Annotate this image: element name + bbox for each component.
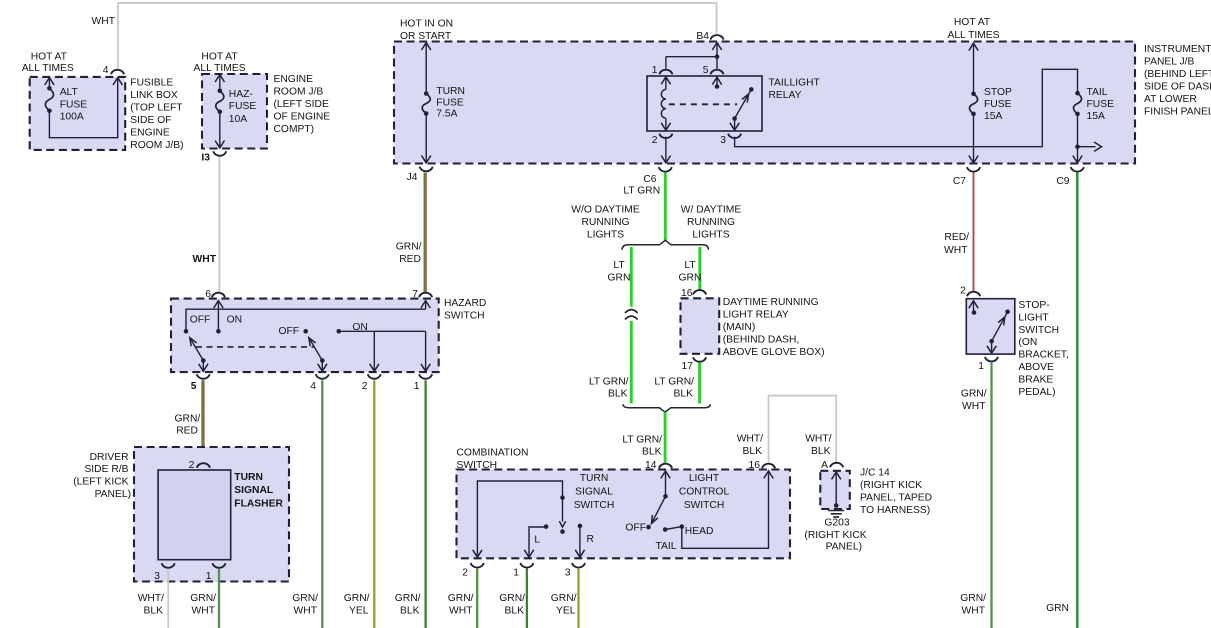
svg-text:BRACKET,: BRACKET, [1018, 350, 1068, 361]
svg-text:YEL: YEL [556, 606, 576, 617]
svg-text:14: 14 [645, 460, 657, 471]
wire label RED/WHT [944, 232, 969, 256]
wire GRN/WHT (hazard 4) [321, 380, 323, 628]
svg-text:2: 2 [960, 285, 966, 296]
svg-text:LT GRN/: LT GRN/ [589, 377, 629, 388]
wire LT GRN (w/o DRL branch, lower) [630, 321, 633, 404]
svg-text:1: 1 [652, 65, 658, 76]
svg-text:C9: C9 [1056, 176, 1069, 187]
wire RED/WHT (C7 to stop light switch) [973, 173, 975, 292]
wire GRN/RED (hazard 5 to flasher) [201, 380, 203, 462]
wire (inside fusible link box) [49, 78, 122, 138]
label OFF (hazard pole 2) [279, 326, 300, 337]
svg-text:HEAD: HEAD [685, 526, 714, 537]
engine room J/B box [202, 74, 267, 149]
svg-text:1: 1 [978, 361, 984, 372]
svg-text:WHT: WHT [193, 254, 217, 265]
svg-text:WHT: WHT [449, 606, 473, 617]
label HAZARD SWITCH [444, 298, 486, 321]
svg-text:ENGINE: ENGINE [130, 128, 170, 139]
svg-text:W/O DAYTIME: W/O DAYTIME [571, 205, 640, 216]
wire LT GRN/BLK (merge to combination switch) [664, 412, 667, 463]
connector A (J/C 14) [821, 460, 843, 471]
label OFF (light control) [625, 523, 646, 534]
svg-text:FLASHER: FLASHER [234, 498, 283, 509]
svg-text:ALT: ALT [60, 87, 79, 98]
svg-text:LINK BOX: LINK BOX [130, 90, 178, 101]
label ENGINE ROOM J/B location [274, 74, 331, 135]
svg-text:GRN/: GRN/ [499, 593, 525, 604]
svg-text:I3: I3 [201, 153, 210, 164]
svg-text:FUSE: FUSE [436, 97, 464, 108]
svg-text:LT GRN: LT GRN [623, 186, 660, 197]
svg-text:15A: 15A [984, 111, 1002, 122]
wire label LT GRN (C6) [623, 186, 660, 197]
svg-text:ENGINE: ENGINE [274, 74, 314, 85]
svg-text:LIGHTS: LIGHTS [692, 230, 729, 241]
wire label WHT (bold) [193, 254, 217, 265]
svg-text:(BEHIND DASH,: (BEHIND DASH, [723, 335, 800, 346]
svg-text:3: 3 [720, 135, 726, 146]
svg-text:6: 6 [205, 289, 211, 300]
stop light switch lever [987, 310, 1010, 354]
label DRIVER SIDE R/B location [73, 452, 131, 500]
hazard pole2 lever [309, 338, 327, 372]
svg-text:(RIGHT KICK: (RIGHT KICK [804, 530, 866, 541]
hazard pole2 ON contact rail [337, 329, 431, 371]
wire WHT (battery feed, top) [118, 3, 717, 68]
svg-text:15A: 15A [1087, 111, 1105, 122]
hazard conn7 riser [421, 301, 430, 310]
connector J4 [407, 167, 433, 183]
svg-text:TO HARNESS): TO HARNESS) [860, 505, 930, 516]
svg-text:(RIGHT KICK: (RIGHT KICK [860, 480, 922, 491]
junction connector J/C 14 box [820, 471, 850, 509]
svg-text:ROOM J/B: ROOM J/B [274, 87, 324, 98]
hazard pole1 OFF contact [184, 309, 426, 333]
svg-text:J4: J4 [407, 172, 418, 183]
svg-text:LIGHT RELAY: LIGHT RELAY [723, 310, 789, 321]
svg-text:FUSE: FUSE [1087, 99, 1115, 110]
svg-text:OFF: OFF [625, 523, 646, 534]
svg-text:2: 2 [652, 135, 658, 146]
svg-text:5: 5 [191, 381, 197, 392]
label HEAD [685, 526, 714, 537]
svg-text:GRN: GRN [608, 273, 631, 284]
wire label LT GRN/BLK (right) [654, 377, 694, 400]
label J/C 14 location [860, 468, 932, 517]
svg-text:GRN/: GRN/ [190, 593, 216, 604]
label INSTRUMENT PANEL J/B location [1144, 44, 1211, 118]
svg-text:RED/: RED/ [944, 232, 969, 243]
option split bracket [622, 240, 708, 250]
svg-text:SIDE R/B: SIDE R/B [84, 464, 128, 475]
wire WHT/BLK (flasher 3) [167, 569, 169, 628]
connector pin 5 (taillight relay) [703, 65, 724, 76]
svg-text:OR START: OR START [400, 31, 452, 42]
svg-text:BLK: BLK [400, 606, 420, 617]
svg-text:(LEFT SIDE: (LEFT SIDE [274, 99, 329, 110]
svg-text:OFF: OFF [190, 315, 211, 326]
label STOP-LIGHT SWITCH location [1018, 300, 1068, 398]
svg-text:BLK: BLK [642, 447, 662, 458]
svg-text:RELAY: RELAY [769, 90, 802, 101]
svg-text:(BEHIND LEFT: (BEHIND LEFT [1144, 69, 1211, 80]
fuse TAIL FUSE 15A [1073, 87, 1114, 163]
wire label GRN/RED (upper) [396, 242, 422, 266]
svg-text:ROOM J/B): ROOM J/B) [130, 140, 183, 151]
connector pin 4 (fusible link box) [103, 65, 124, 76]
svg-text:TAIL: TAIL [1087, 87, 1108, 98]
inline connector (left branch) [625, 310, 638, 320]
label ON (hazard pole 2) [352, 322, 367, 333]
label DAYTIME RUNNING LIGHT RELAY location [723, 297, 825, 358]
wire label GRN/WHT (stop sw bottom) [960, 593, 986, 617]
svg-text:TAIL: TAIL [656, 541, 677, 552]
svg-text:RUNNING: RUNNING [581, 217, 629, 228]
svg-text:INSTRUMENT: INSTRUMENT [1144, 44, 1211, 55]
svg-text:BLK: BLK [811, 446, 831, 457]
label W/ DAYTIME RUNNING LIGHTS [681, 205, 742, 241]
svg-text:(ON: (ON [1018, 337, 1037, 348]
connector pin 2 (combination switch) [462, 563, 483, 579]
connector pin 3 (flasher) [154, 563, 174, 582]
turn signal lever [559, 498, 565, 534]
wire label GRN/WHT (stop light sw) [961, 389, 987, 413]
svg-text:WHT: WHT [962, 606, 986, 617]
label TAIL [656, 541, 677, 552]
label HOT IN ON OR START [400, 18, 453, 42]
svg-text:SWITCH: SWITCH [444, 310, 485, 321]
svg-text:BRAKE: BRAKE [1018, 374, 1053, 385]
svg-text:WHT: WHT [92, 16, 116, 27]
svg-text:FUSE: FUSE [984, 99, 1012, 110]
connector pin 1 (taillight relay) [652, 65, 673, 76]
label LIGHT CONTROL SWITCH [679, 473, 730, 511]
svg-text:FUSE: FUSE [60, 100, 88, 111]
svg-text:SIGNAL: SIGNAL [234, 485, 273, 496]
svg-text:DAYTIME RUNNING: DAYTIME RUNNING [723, 297, 819, 308]
connector pin 1 (combination switch) [513, 563, 533, 579]
connector pin 7 (hazard switch) [412, 289, 432, 300]
svg-text:1: 1 [513, 568, 519, 579]
wire LT GRN (DRL relay to merge) [698, 363, 701, 404]
connector pin 2 (taillight relay) [652, 134, 673, 146]
svg-text:HOT AT: HOT AT [201, 52, 238, 63]
svg-text:LT GRN/: LT GRN/ [622, 435, 662, 446]
wire GRN/YEL (hazard 2) [373, 380, 375, 628]
wire label LT GRN/BLK (center) [622, 435, 662, 458]
svg-text:1: 1 [414, 381, 420, 392]
wire label GRN/BLK (hazard 1 bottom) [395, 593, 421, 617]
wire GRN/WHT (comb 2) [476, 568, 478, 628]
connector pin 4 (hazard switch) [310, 374, 329, 392]
wire WHT/BLK (comb 16 to J/C 14) [769, 396, 837, 463]
svg-text:TURN: TURN [234, 472, 263, 483]
svg-text:WHT/: WHT/ [138, 593, 164, 604]
wire GRN/WHT (flasher 1) [218, 569, 220, 628]
svg-text:WHT: WHT [192, 606, 216, 617]
connector pin 2 (flasher) [189, 460, 210, 471]
svg-text:LIGHT: LIGHT [1018, 312, 1049, 323]
wire label GRN (bottom) [1046, 603, 1069, 614]
wire WHT (I3 to hazard switch) [218, 157, 220, 292]
label FUSIBLE LINK BOX location [130, 78, 183, 152]
svg-text:GRN/: GRN/ [961, 389, 987, 400]
svg-text:GRN/: GRN/ [395, 593, 421, 604]
driver side R/B box [134, 447, 289, 582]
wire GRN/YEL (comb 3) [577, 568, 579, 628]
svg-text:SIDE OF: SIDE OF [130, 115, 171, 126]
svg-text:(MAIN): (MAIN) [723, 322, 756, 333]
svg-text:4: 4 [103, 65, 109, 76]
svg-text:(TOP LEFT: (TOP LEFT [130, 103, 183, 114]
wire pin2 to C6 [661, 137, 670, 163]
connector pin 16 (combination switch) [749, 460, 775, 471]
wire GRN (C9 down) [1076, 173, 1079, 628]
svg-text:HAZ-: HAZ- [229, 89, 253, 100]
wire label LT GRN (right branch) [679, 260, 702, 284]
turn signal flasher box [158, 470, 231, 560]
svg-text:SWITCH: SWITCH [1018, 325, 1059, 336]
svg-text:4: 4 [310, 381, 316, 392]
svg-text:BLK: BLK [144, 606, 164, 617]
svg-text:PANEL): PANEL) [826, 542, 862, 553]
svg-text:17: 17 [682, 361, 694, 372]
connector C9 [1056, 167, 1083, 187]
svg-text:GRN/: GRN/ [551, 593, 577, 604]
relay mechanical link (dashed) [669, 103, 737, 105]
fuse HAZ-FUSE 10A [215, 75, 256, 148]
taillight relay box [647, 76, 762, 131]
wire GRN/RED (J4 to hazard switch) [424, 173, 426, 292]
wire label GRN/YEL (comb 3 bottom) [551, 593, 577, 617]
svg-text:BLK: BLK [743, 446, 763, 457]
connector pin 3 (taillight relay) [720, 134, 741, 146]
svg-text:PANEL): PANEL) [95, 489, 131, 500]
svg-text:BLK: BLK [608, 389, 628, 400]
connector C7 [953, 167, 980, 187]
label OFF (hazard pole 1) [190, 315, 211, 326]
svg-text:R: R [586, 534, 593, 545]
svg-text:PEDAL): PEDAL) [1018, 387, 1055, 398]
connector I3 [201, 151, 226, 163]
connector B4 [696, 31, 723, 42]
light control OFF contact [646, 525, 651, 530]
connector pin 2 (stop light switch) [960, 285, 980, 296]
svg-text:SWITCH: SWITCH [574, 500, 615, 511]
label W/O DAYTIME RUNNING LIGHTS [571, 205, 640, 241]
svg-text:G203: G203 [824, 518, 849, 529]
svg-text:7.5A: 7.5A [436, 109, 457, 120]
svg-text:TURN: TURN [580, 473, 609, 484]
svg-text:ALL TIMES: ALL TIMES [194, 63, 246, 74]
wire label LT GRN/BLK (left) [589, 377, 629, 400]
svg-text:DRIVER: DRIVER [90, 452, 129, 463]
svg-text:3: 3 [565, 568, 571, 579]
wire label GRN/YEL (hazard 2 bottom) [344, 593, 370, 617]
connector pin 3 (combination switch) [565, 563, 585, 579]
hazard pole1 lever [190, 338, 208, 372]
svg-text:LIGHT: LIGHT [689, 473, 720, 484]
svg-text:HAZARD: HAZARD [444, 298, 486, 309]
J/C 14 internal wire [832, 472, 841, 508]
wire GRN/BLK (hazard 1) [424, 380, 426, 628]
svg-text:TAILLIGHT: TAILLIGHT [769, 77, 821, 88]
svg-text:J/C 14: J/C 14 [860, 468, 890, 479]
wire label WHT/BLK (bottom) [138, 593, 164, 617]
wire label LT GRN (left branch) [608, 260, 631, 284]
ground G203 [828, 511, 844, 518]
svg-text:ABOVE GLOVE BOX): ABOVE GLOVE BOX) [723, 347, 825, 358]
wire GRN/WHT (stop light switch 1) [990, 362, 992, 628]
svg-text:LT: LT [684, 260, 696, 271]
svg-text:LT: LT [613, 260, 625, 271]
svg-text:ALL TIMES: ALL TIMES [947, 30, 999, 41]
wire label GRN/BLK (comb 1 bottom) [499, 593, 525, 617]
connector pin 1 (stop light switch) [978, 357, 998, 372]
svg-text:(LEFT KICK: (LEFT KICK [73, 477, 128, 488]
label TURN SIGNAL SWITCH [574, 473, 615, 511]
svg-text:FUSIBLE: FUSIBLE [130, 78, 173, 89]
fusible link ALT FUSE 100A [45, 78, 88, 123]
svg-text:3: 3 [154, 571, 160, 582]
hazard pole2 OFF contact [303, 329, 308, 334]
hazard switch pole 1 common [214, 301, 223, 334]
stop light switch box [966, 299, 1015, 354]
svg-text:PANEL J/B: PANEL J/B [1144, 57, 1194, 68]
wire LT GRN (w/ DRL branch to relay) [698, 247, 701, 291]
fuse STOP FUSE 15A [969, 43, 1012, 163]
svg-text:GRN/: GRN/ [344, 593, 370, 604]
label TAILLIGHT RELAY [769, 77, 821, 101]
wire label WHT (top left) [92, 16, 116, 27]
connector pin 14 (combination switch) [645, 460, 672, 471]
svg-text:GRN/: GRN/ [960, 593, 986, 604]
svg-text:STOP: STOP [984, 87, 1012, 98]
svg-text:SIGNAL: SIGNAL [575, 486, 613, 497]
svg-text:10A: 10A [229, 114, 247, 125]
svg-text:HOT AT: HOT AT [31, 52, 68, 63]
svg-text:WHT/: WHT/ [805, 434, 831, 445]
svg-text:RUNNING: RUNNING [687, 217, 735, 228]
svg-text:16: 16 [749, 460, 761, 471]
wire LT GRN (C6 to split) [664, 173, 667, 241]
svg-text:C6: C6 [643, 174, 656, 185]
svg-text:BLK: BLK [505, 606, 525, 617]
svg-text:CONTROL: CONTROL [679, 486, 730, 497]
svg-text:COMBINATION: COMBINATION [457, 448, 529, 459]
svg-text:W/ DAYTIME: W/ DAYTIME [681, 205, 742, 216]
svg-text:100A: 100A [60, 112, 84, 123]
label HOT AT ALL TIMES (engine room J/B) [194, 52, 246, 75]
svg-text:GRN/: GRN/ [292, 593, 318, 604]
wire GRN/BLK (comb 1) [526, 568, 528, 628]
relay coil (taillight relay) [661, 77, 722, 130]
connector pin 16 (DRL relay) [681, 288, 706, 299]
svg-text:7: 7 [412, 289, 418, 300]
svg-text:ALL TIMES: ALL TIMES [22, 63, 74, 74]
option merge bracket [623, 404, 710, 412]
svg-text:COMPT): COMPT) [274, 124, 315, 135]
fusible link box (engine room J/B) [30, 77, 126, 150]
svg-text:WHT/: WHT/ [737, 434, 763, 445]
svg-text:ABOVE: ABOVE [1018, 362, 1054, 373]
connector pin 2 (hazard switch) [362, 374, 381, 392]
wire label GRN/WHT (comb 2 bottom) [448, 593, 474, 617]
label G203 (RIGHT KICK PANEL) [804, 518, 866, 553]
wire label GRN/RED (lower) [175, 414, 201, 437]
svg-text:GRN/: GRN/ [448, 593, 474, 604]
svg-text:WHT: WHT [962, 401, 986, 412]
wire label GRN/WHT (hazard 4 bottom) [292, 593, 318, 617]
svg-text:LT GRN/: LT GRN/ [654, 377, 694, 388]
svg-text:LIGHTS: LIGHTS [587, 230, 624, 241]
node B4 junction [666, 43, 722, 69]
svg-text:TURN: TURN [436, 86, 465, 97]
svg-text:B4: B4 [696, 31, 709, 42]
stop light switch common [969, 301, 978, 315]
svg-text:WHT: WHT [944, 245, 968, 256]
svg-text:ON: ON [227, 315, 242, 326]
label ON (hazard pole 1) [227, 315, 242, 326]
svg-text:SIDE OF DASH: SIDE OF DASH [1144, 82, 1211, 93]
wire LT GRN (w/o DRL branch, upper) [630, 247, 633, 307]
connector pin 17 (DRL relay) [682, 357, 707, 372]
svg-text:FINISH PANEL): FINISH PANEL) [1144, 107, 1211, 118]
svg-text:PANEL, TAPED: PANEL, TAPED [860, 493, 932, 504]
daytime running light relay box [681, 298, 720, 354]
svg-text:AT LOWER: AT LOWER [1144, 94, 1197, 105]
svg-text:YEL: YEL [349, 606, 369, 617]
connector pin 5 (hazard switch) [191, 374, 210, 392]
hazard switch box [171, 299, 439, 373]
label L [534, 535, 540, 546]
connector pin 1 (hazard switch) [414, 374, 432, 392]
combination switch box [457, 470, 791, 559]
label HOT AT ALL TIMES (stop fuse) [947, 17, 999, 41]
svg-text:5: 5 [703, 65, 709, 76]
svg-text:SWITCH: SWITCH [684, 500, 725, 511]
hazard mechanical link (dashed) [196, 346, 314, 348]
svg-text:1: 1 [206, 571, 212, 582]
fuse TURN FUSE 7.5A [422, 43, 465, 163]
svg-text:WHT: WHT [294, 606, 318, 617]
label HOT AT ALL TIMES (fusible link box) [22, 52, 74, 75]
label COMBINATION SWITCH [457, 448, 529, 472]
light control TAIL-HEAD lever [663, 524, 684, 532]
wire pin3 to tail fuse [735, 69, 1078, 146]
wire label WHT/BLK (left) [737, 434, 763, 458]
svg-text:GRN/: GRN/ [175, 414, 201, 425]
connector pin 6 (hazard switch) [205, 289, 225, 300]
turn signal switch common rail [473, 481, 565, 557]
svg-text:HOT AT: HOT AT [954, 17, 991, 28]
svg-text:BLK: BLK [674, 389, 694, 400]
turn signal L contact [524, 524, 548, 557]
wire label GRN/WHT (flasher 1 bottom) [190, 593, 216, 617]
connector C6 [643, 167, 671, 185]
svg-text:2: 2 [462, 568, 468, 579]
wire label WHT/BLK (right) [805, 434, 831, 458]
svg-text:GRN: GRN [679, 273, 702, 284]
relay switch contacts [730, 87, 754, 130]
connector pin 1 (flasher) [206, 563, 226, 582]
svg-text:L: L [534, 535, 540, 546]
svg-text:RED: RED [399, 254, 421, 265]
svg-text:HOT IN ON: HOT IN ON [400, 18, 453, 29]
svg-text:OFF: OFF [279, 326, 300, 337]
